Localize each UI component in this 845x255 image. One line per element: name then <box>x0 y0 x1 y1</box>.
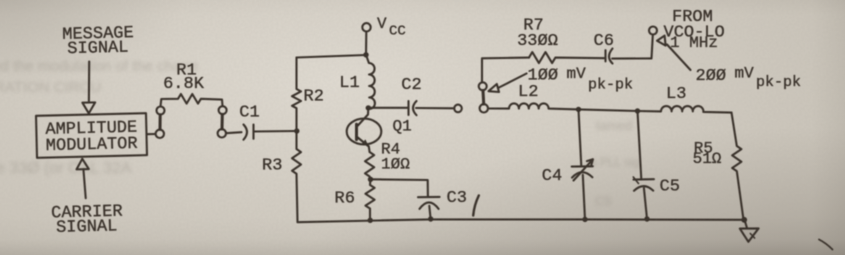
terminal jack left pair <box>157 107 165 115</box>
wire up to VCO terminal <box>652 35 653 59</box>
terminal C2 out <box>454 105 462 113</box>
node ground rail end junction <box>741 217 747 223</box>
wire top rail to Vcc <box>297 55 366 58</box>
node C5 top junction <box>635 108 640 113</box>
terminal jack right pair <box>219 106 227 114</box>
resistor R2 <box>292 58 301 132</box>
node vcc junction <box>363 52 368 57</box>
capacitor C2 <box>368 107 408 109</box>
label 200 mV pk-pk with leader arrow <box>657 36 666 46</box>
wire carrier arrow line <box>83 169 85 198</box>
label CARRIER SIGNAL <box>51 203 123 238</box>
inductor L2 <box>488 103 579 109</box>
wire emitter node to C3 <box>371 179 428 197</box>
wire jack to C1 <box>226 132 242 133</box>
node R6 ground junction <box>368 218 373 223</box>
wire top rail L2-L3 <box>579 109 638 111</box>
wire box output to jack <box>147 133 156 135</box>
terminal jack pair at L2 input <box>479 82 487 90</box>
arrowhead into box bottom <box>76 159 89 170</box>
terminal Vcc <box>362 23 370 31</box>
left group: message/carrier + modulator box, slightly rotated like the photo <box>34 24 149 238</box>
capacitor C3 <box>418 196 440 198</box>
capacitor C6 <box>604 50 606 61</box>
arrowhead into box top <box>82 102 95 113</box>
capacitor C4 variable <box>579 109 582 166</box>
node C3 ground junction <box>428 216 433 221</box>
capacitor C5 <box>638 111 642 179</box>
resistor R1 <box>161 94 223 106</box>
wire message arrow line <box>88 62 90 103</box>
node C5 ground junction <box>644 216 649 221</box>
resistor R6 <box>365 179 374 220</box>
node emitter junction <box>368 177 373 182</box>
node C4 top junction <box>576 107 581 112</box>
node C4 ground junction <box>582 217 587 222</box>
resistor R5 <box>732 113 744 220</box>
wire R7 feed <box>482 58 529 83</box>
node collector junction <box>366 105 371 110</box>
label MESSAGE SIGNAL <box>62 24 134 59</box>
wire vcc stub <box>365 32 367 55</box>
inductor L1 <box>366 55 375 109</box>
wire ground rail <box>298 219 745 222</box>
ground <box>745 220 748 228</box>
transistor Q1 <box>347 119 382 145</box>
wire C1 to base node <box>254 130 297 133</box>
stray pen tick on rail <box>473 196 479 216</box>
capacitor C1 <box>244 125 248 140</box>
resistor R7 <box>529 52 605 63</box>
label 100 mV pk-pk with leader arrow <box>489 84 500 92</box>
inductor L3 <box>638 106 732 113</box>
terminal from VCO-LO <box>649 27 657 35</box>
resistor R3 <box>292 131 301 222</box>
amplitude modulator box U1 <box>36 113 147 158</box>
ghost bleed-through text <box>0 58 198 75</box>
stray pen mark bottom right <box>819 240 833 250</box>
node base junction <box>294 128 299 133</box>
resistor R4 <box>365 152 374 179</box>
